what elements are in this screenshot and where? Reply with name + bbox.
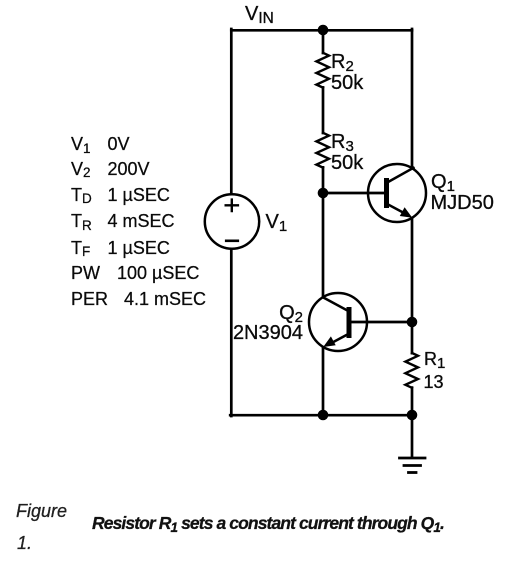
wire right rail Q1 emitter to R1 <box>411 218 414 353</box>
value label R3 <box>331 132 354 152</box>
node junction R3 bottom / Q1 base <box>318 188 329 199</box>
value label Q2 <box>279 303 303 323</box>
node junction Q2 base / right rail <box>407 317 418 328</box>
voltage source V1 <box>205 194 259 248</box>
value label R2 <box>331 52 354 72</box>
node junction bottom right <box>407 410 418 421</box>
wire bottom rail <box>230 414 412 417</box>
parameter list V1 <box>71 135 91 153</box>
wire left rail lower <box>230 248 233 416</box>
parameter list PW <box>71 264 100 282</box>
resistor R3 <box>316 133 329 168</box>
wire middle rail between R2 and R3 <box>322 87 325 133</box>
ground <box>400 458 426 473</box>
wire top rail VIN <box>231 29 412 32</box>
wire middle rail Q2 emitter to bottom rail <box>322 347 325 415</box>
wire left rail upper <box>230 29 233 194</box>
wire right rail R1 to bottom rail and ground stub <box>411 388 414 457</box>
wire Q1 base <box>323 192 384 195</box>
resistor R1 <box>405 353 418 388</box>
value label R1 <box>424 350 445 368</box>
value label Q1 <box>431 172 455 192</box>
wire Q2 base <box>352 321 413 324</box>
value label V1 <box>266 212 288 232</box>
parameter list TR <box>71 212 92 230</box>
resistor R2 <box>316 53 329 88</box>
node junction bottom middle <box>318 410 329 421</box>
wire middle rail upper <box>322 29 325 53</box>
transistor Q1 <box>368 164 426 222</box>
node junction top VIN <box>318 25 329 36</box>
wire right rail upper <box>411 29 414 168</box>
caption text <box>92 515 444 533</box>
transistor Q2 <box>309 293 367 351</box>
parameter list TD <box>71 186 92 204</box>
caption figure number <box>16 502 67 520</box>
parameter list V2 <box>71 160 91 178</box>
net label VIN <box>245 4 274 24</box>
parameter list PER <box>71 290 108 308</box>
wire middle rail R3 to Q2 collector <box>322 167 325 297</box>
parameter list TF <box>71 239 90 257</box>
